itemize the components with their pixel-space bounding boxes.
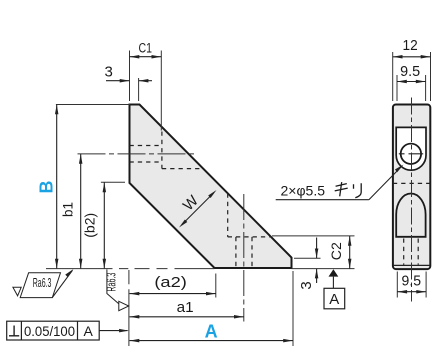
svg-text:b1: b1 — [61, 202, 76, 217]
svg-text:Ra6.3: Ra6.3 — [104, 273, 119, 292]
centerline top hole — [78, 153, 197, 155]
side view outline — [393, 105, 430, 270]
svg-text:3: 3 — [105, 64, 113, 81]
dimension a2 — [130, 274, 216, 298]
svg-text:9.5: 9.5 — [400, 63, 420, 80]
svg-text:B: B — [37, 181, 57, 194]
side view dome (bottom pocket projection) — [396, 194, 425, 237]
side view bottom inner line — [393, 264, 430, 266]
leader 2x phi5.5 drill — [276, 165, 404, 200]
dimension 3 top — [105, 64, 152, 102]
centerline bottom hole — [243, 194, 245, 322]
main view body outline — [130, 105, 292, 269]
dimension A — [130, 271, 294, 346]
svg-text:A: A — [205, 321, 218, 341]
side view drill hidden lines — [404, 239, 419, 265]
side view hidden inner corner line — [393, 182, 430, 184]
dimension 9.5 top — [397, 63, 426, 101]
svg-text:a1: a1 — [177, 299, 194, 316]
svg-text:0.05/100: 0.05/100 — [24, 323, 75, 339]
dimension b1 — [61, 154, 83, 269]
dimension c1 — [130, 41, 162, 131]
dimension 9.5 bottom — [397, 272, 426, 298]
dimension B — [37, 105, 131, 269]
dimension 3 bottom right — [298, 238, 319, 290]
svg-text:12: 12 — [403, 37, 418, 54]
W width arrow — [179, 190, 217, 228]
side view vertical centerline — [411, 98, 413, 302]
side view pocket — [396, 127, 426, 170]
svg-text:Ra6.3: Ra6.3 — [33, 275, 52, 290]
hidden lines top hole — [130, 132, 204, 169]
surface roughness symbol 2 (rotated) — [104, 269, 129, 310]
dimension c2 — [329, 236, 351, 269]
svg-text:C2: C2 — [329, 242, 344, 260]
surface roughness symbol 1 — [13, 269, 74, 298]
svg-text:A: A — [84, 323, 94, 339]
side view hole circle — [399, 144, 423, 164]
dimension 12 — [393, 37, 431, 101]
baseline extension left — [46, 268, 214, 270]
svg-text:(a2): (a2) — [154, 275, 187, 291]
left edge extension line down — [128, 270, 130, 346]
svg-text:2×φ5.5: 2×φ5.5 — [281, 183, 326, 199]
datum A symbol — [324, 269, 345, 309]
svg-text:(b2): (b2) — [82, 213, 98, 238]
svg-text:A: A — [329, 291, 339, 308]
dimension b2 — [82, 182, 126, 268]
dimension a1 — [130, 299, 244, 319]
katakana RI — [354, 183, 362, 198]
tolerance frame — [7, 321, 129, 340]
svg-text:3: 3 — [298, 281, 315, 289]
svg-text:9.5: 9.5 — [402, 272, 422, 289]
svg-text:C1: C1 — [139, 41, 153, 56]
hidden lines bottom hole — [228, 194, 272, 269]
katakana KI — [335, 182, 348, 196]
extension lines right of main view — [272, 236, 355, 269]
